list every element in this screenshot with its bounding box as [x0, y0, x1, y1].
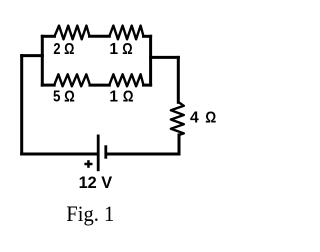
svg-text:Ω: Ω — [122, 41, 132, 58]
svg-text:Ω: Ω — [123, 88, 134, 105]
svg-text:5 Ω: 5 Ω — [53, 88, 75, 105]
svg-text:Fig. 1: Fig. 1 — [66, 202, 114, 226]
svg-text:2 Ω: 2 Ω — [53, 41, 74, 58]
svg-text:12 V: 12 V — [79, 174, 113, 192]
svg-text:4: 4 — [190, 110, 199, 127]
svg-text:Ω: Ω — [205, 110, 216, 127]
svg-text:1: 1 — [109, 41, 118, 58]
svg-text:1: 1 — [109, 88, 118, 105]
